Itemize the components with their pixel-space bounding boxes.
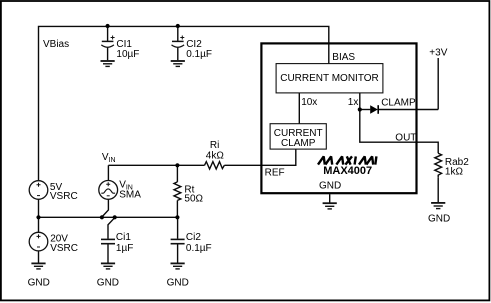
svg-text:10x: 10x: [301, 97, 317, 108]
svg-text:Ci1: Ci1: [116, 232, 131, 243]
svg-text:+3V: +3V: [429, 48, 447, 59]
svg-text:GND: GND: [97, 278, 119, 289]
svg-text:GND: GND: [428, 213, 450, 224]
svg-text:GND: GND: [167, 278, 189, 289]
svg-text:MAX4007: MAX4007: [323, 165, 372, 177]
svg-text:10µF: 10µF: [116, 49, 139, 60]
svg-text:50Ω: 50Ω: [184, 194, 203, 205]
svg-text:GND: GND: [28, 278, 50, 289]
svg-text:1x: 1x: [348, 97, 359, 108]
svg-text:VBias: VBias: [43, 39, 69, 50]
svg-text:OUT: OUT: [395, 132, 416, 143]
svg-text:1µF: 1µF: [116, 243, 133, 254]
svg-text:CLAMP: CLAMP: [281, 138, 316, 149]
svg-text:4kΩ: 4kΩ: [206, 150, 225, 161]
svg-text:0.1µF: 0.1µF: [186, 243, 212, 254]
svg-text:VSRC: VSRC: [50, 243, 78, 254]
svg-text:BIAS: BIAS: [332, 52, 355, 63]
svg-text:VSRC: VSRC: [50, 191, 78, 202]
svg-text:GND: GND: [319, 181, 341, 192]
svg-text:REF: REF: [265, 167, 285, 178]
svg-text:SMA: SMA: [119, 190, 141, 201]
svg-text:1kΩ: 1kΩ: [445, 167, 464, 178]
svg-text:CLAMP: CLAMP: [381, 97, 416, 108]
svg-text:0.1µF: 0.1µF: [186, 49, 212, 60]
svg-text:CURRENT MONITOR: CURRENT MONITOR: [280, 73, 379, 84]
svg-text:Ci2: Ci2: [186, 232, 201, 243]
